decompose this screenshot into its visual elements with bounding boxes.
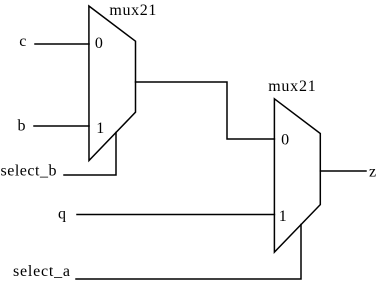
svg-text:select_a: select_a [13, 263, 70, 280]
svg-text:z: z [369, 163, 376, 180]
svg-text:select_b: select_b [1, 162, 57, 179]
svg-text:0: 0 [281, 131, 289, 148]
svg-text:mux21: mux21 [268, 78, 316, 95]
svg-text:b: b [18, 117, 26, 134]
svg-text:mux21: mux21 [109, 2, 156, 19]
svg-text:0: 0 [95, 35, 103, 52]
svg-text:1: 1 [96, 120, 104, 137]
svg-text:1: 1 [279, 208, 287, 225]
svg-text:q: q [58, 206, 66, 223]
svg-text:c: c [19, 33, 26, 50]
